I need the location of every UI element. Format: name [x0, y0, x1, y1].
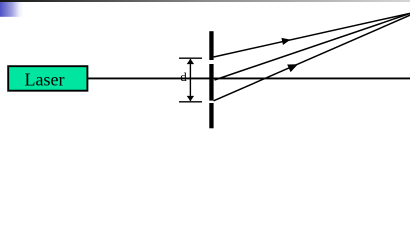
- svg-text:d: d: [180, 69, 187, 84]
- svg-text:Laser: Laser: [25, 70, 65, 90]
